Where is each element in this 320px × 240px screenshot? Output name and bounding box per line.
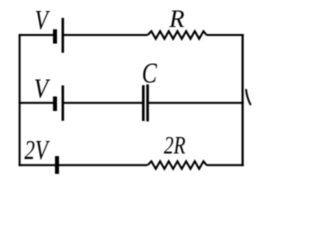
- battery V2 thin plate: [62, 85, 65, 120]
- svg-text:R: R: [168, 6, 184, 33]
- svg-text:2R: 2R: [164, 133, 186, 160]
- battery V2 thick plate: [53, 97, 57, 112]
- wire middle-right segment: [147, 102, 243, 104]
- capacitor C right plate: [146, 84, 149, 121]
- svg-text:C: C: [142, 57, 158, 89]
- svg-text:2V: 2V: [24, 135, 50, 165]
- resistor R zigzag: [148, 31, 207, 39]
- wire top-middle segment: [64, 34, 148, 36]
- capacitor C left plate: [142, 85, 145, 121]
- switch blade tick: [246, 90, 250, 105]
- wire bottom-right segment: [206, 164, 243, 166]
- wire left vertical: [19, 34, 21, 166]
- wire bottom-left segment: [19, 164, 148, 166]
- wire middle-center segment: [64, 102, 144, 104]
- wire top-left segment: [19, 34, 54, 36]
- wire right vertical: [242, 34, 244, 166]
- battery 2V plate: [55, 156, 59, 174]
- battery V1 thick plate: [53, 29, 57, 43]
- battery V1 thin plate: [62, 18, 65, 53]
- resistor 2R zigzag: [148, 161, 207, 169]
- wire middle-left segment: [19, 102, 54, 104]
- wire top-right segment: [206, 34, 243, 36]
